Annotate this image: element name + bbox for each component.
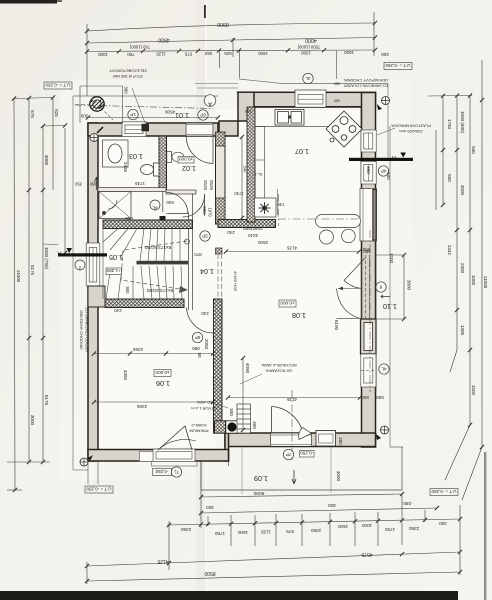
svg-text:1745: 1745 (134, 181, 145, 186)
lower winders (132, 266, 134, 299)
svg-text:ZO ZAMKOVEJ DLAZBY: ZO ZAMKOVEJ DLAZBY (343, 84, 388, 89)
window south wall near corner (316, 431, 336, 447)
section cut right with A marker (349, 153, 413, 162)
svg-text:240: 240 (243, 166, 248, 173)
leader lines for annotations (216, 128, 395, 408)
porch paving box around well (75, 86, 123, 123)
upper winders (120, 229, 137, 259)
U.T box below SW corner (85, 486, 113, 493)
svg-text:8x173,5/280: 8x173,5/280 (144, 244, 171, 250)
svg-text:SO-4601: SO-4601 (196, 400, 213, 405)
corner block kitchen NW (238, 92, 254, 121)
4125/4575 chain (87, 552, 460, 566)
svg-text:380: 380 (124, 86, 129, 94)
door corridor to 1.06 (187, 308, 214, 334)
bottom dimension chains (87, 461, 460, 584)
corner hob (diamond) (326, 111, 362, 147)
svg-text:4L: 4L (381, 366, 387, 371)
svg-text:1.02: 1.02 (182, 164, 196, 173)
svg-text:2050: 2050 (204, 339, 209, 350)
svg-text:1.04: 1.04 (200, 267, 214, 276)
8500 overall (87, 572, 460, 581)
svg-text:1P: 1P (130, 112, 136, 117)
hatched segment top of x215 wall (216, 132, 226, 146)
svg-text:740: 740 (277, 202, 285, 207)
left dimension chains (7, 98, 65, 491)
svg-text:380: 380 (362, 247, 370, 252)
svg-text:5175: 5175 (30, 265, 35, 276)
svg-text:7P: 7P (286, 452, 292, 457)
large fixed window east wall C (360, 189, 377, 242)
extension lines SW corner down (88, 462, 98, 484)
scan black strip top-left (0, 0, 57, 4)
svg-text:800: 800 (202, 206, 207, 214)
svg-text:1200: 1200 (389, 253, 394, 264)
svg-text:1750: 1750 (384, 527, 395, 532)
svg-text:300: 300 (252, 421, 257, 429)
svg-text:1970: 1970 (208, 207, 213, 217)
svg-text:1750: 1750 (447, 119, 452, 130)
svg-text:ZO ZAMKOVEJ DLAZBY: ZO ZAMKOVEJ DLAZBY (85, 308, 90, 353)
wall axis dashes across corridor opening (218, 254, 222, 299)
svg-text:300: 300 (328, 502, 336, 508)
walkway north edge (kitchen side) (239, 79, 388, 84)
svg-text:11000: 11000 (16, 270, 21, 283)
canopy dash-dot line over entrance (75, 105, 213, 109)
svg-text:575: 575 (30, 110, 35, 118)
section cut left with A marker (43, 244, 107, 257)
top dim texts (upside down) (129, 21, 320, 50)
svg-text:1500: 1500 (337, 524, 348, 529)
svg-text:2: 2 (78, 266, 81, 271)
svg-text:2500: 2500 (257, 240, 268, 245)
svg-text:±0,000: ±0,000 (179, 157, 193, 162)
svg-text:±0,000: ±0,000 (280, 300, 294, 305)
svg-text:4L: 4L (305, 76, 311, 81)
north wall kitchen (238, 92, 376, 107)
scan gray line right edge (484, 452, 486, 600)
building floor fill (98, 107, 362, 136)
svg-text:6P: 6P (200, 112, 206, 117)
svg-text:2365: 2365 (132, 347, 143, 352)
svg-text:500: 500 (471, 146, 476, 154)
fold tick mark top center (204, 5, 206, 18)
svg-text:870: 870 (194, 252, 202, 257)
svg-text:2350: 2350 (310, 528, 321, 533)
wall below 1.02 with door opening (166, 190, 196, 194)
svg-text:980: 980 (192, 346, 200, 351)
extension verticals (201, 461, 460, 575)
svg-text:3800: 3800 (407, 280, 412, 291)
direction arrows (292, 295, 390, 484)
svg-text:240: 240 (114, 308, 122, 313)
extension lines through terrace (242, 447, 331, 494)
svg-text:U.T = -0,250: U.T = -0,250 (86, 486, 112, 491)
svg-text:625: 625 (224, 51, 232, 56)
hatched segment lower of x215 wall (216, 198, 226, 224)
svg-text:300: 300 (206, 504, 214, 510)
svg-text:2520: 2520 (203, 180, 208, 191)
svg-text:U.T = -0,250: U.T = -0,250 (385, 63, 411, 68)
svg-text:500: 500 (386, 172, 391, 180)
svg-text:2300: 2300 (460, 263, 465, 274)
axis through 1.09 door (291, 390, 293, 462)
svg-text:300: 300 (80, 114, 88, 119)
stair walking line dashed with arrow (121, 241, 187, 290)
svg-text:KOBILO: KOBILO (192, 423, 207, 428)
svg-text:5175: 5175 (44, 395, 49, 406)
door to bathroom 1.03 (in hatched wall) (162, 191, 164, 212)
svg-text:A: A (208, 100, 212, 106)
upper flight treads (140, 229, 144, 262)
svg-text:-0,250: -0,250 (300, 451, 313, 456)
svg-text:500: 500 (361, 395, 369, 400)
east wall (362, 93, 376, 448)
right dim texts (rotated) (447, 111, 488, 396)
svg-text:3240: 3240 (247, 233, 258, 238)
svg-text:1.09: 1.09 (254, 474, 268, 483)
walkway east edge lower (390, 126, 403, 447)
svg-text:UD ROZAMKA: UD ROZAMKA (265, 369, 292, 374)
1.06 upper dim (94, 353, 213, 355)
svg-text:380: 380 (333, 99, 340, 104)
hatched band below stairs / top of 1.06 (105, 299, 184, 308)
svg-text:2350: 2350 (408, 526, 419, 531)
entrance door opening (186, 123, 213, 136)
1.08 vertical dim 4090 (242, 358, 244, 430)
svg-text:±0,000: ±0,000 (155, 370, 169, 375)
vertical annotation along west wall (79, 308, 90, 353)
svg-text:380: 380 (366, 166, 371, 174)
svg-text:1000: 1000 (98, 52, 108, 57)
door hall to corridor 1.04 (183, 194, 205, 217)
svg-text:2435: 2435 (123, 162, 128, 173)
top dimension chains (87, 12, 375, 96)
svg-text:STLP Ø 300 MM: STLP Ø 300 MM (113, 74, 143, 79)
window kitchen north (295, 90, 326, 107)
svg-text:+1,380: +1,380 (106, 268, 121, 273)
svg-text:ZELEZOBETONOVY: ZELEZOBETONOVY (109, 69, 147, 74)
U.T level boxes (44, 63, 458, 496)
svg-text:1.03: 1.03 (129, 152, 143, 161)
1.08 dim 4135 (226, 251, 359, 253)
pier east wall between 1.10 door and window D (361, 319, 377, 354)
svg-text:8000: 8000 (253, 490, 264, 496)
terrace door 1.09 (south, leaf and arc) (272, 407, 312, 440)
small equipment boxes (240, 419, 250, 433)
svg-text:875: 875 (286, 529, 294, 534)
svg-text:4575: 4575 (361, 551, 372, 557)
window east wall B (361, 162, 376, 185)
svg-text:1.05: 1.05 (109, 253, 123, 262)
bottom dim texts (upside down) (206, 490, 413, 510)
boiler: black circle in square near south wall (226, 421, 239, 433)
svg-text:300: 300 (439, 521, 447, 526)
terrace 8000 dim line (201, 494, 402, 497)
walkway outline around building (73, 79, 403, 470)
thin wall below 1.03 (98, 188, 166, 192)
dim line 4500+4000 (87, 38, 375, 44)
svg-text:11000: 11000 (483, 276, 488, 289)
west wall (88, 123, 98, 461)
scan black bar bottom (0, 591, 458, 600)
kitchen partition hatched (x247-255) (247, 107, 255, 222)
north wall rooms 1.01-1.03 (88, 123, 218, 136)
svg-text:380: 380 (333, 82, 340, 87)
svg-text:1500: 1500 (344, 50, 354, 55)
dim line 8900 overall top (87, 23, 375, 31)
svg-text:1000: 1000 (471, 275, 476, 286)
door frame lines 1.10 opening (362, 255, 370, 319)
svg-text:2350: 2350 (180, 527, 191, 532)
svg-text:750 (1600): 750 (1600) (129, 45, 150, 50)
svg-text:600: 600 (166, 200, 174, 205)
kitchen counter (255, 108, 361, 127)
1.06 lower dim (94, 401, 213, 403)
toilet 1.03 (141, 163, 160, 176)
svg-text:2365: 2365 (136, 404, 147, 409)
left dim texts (rotated) (16, 109, 59, 425)
svg-text:1.06: 1.06 (156, 379, 170, 388)
interior dim texts (upside down / rotated) (74, 52, 411, 482)
svg-text:600: 600 (381, 52, 389, 57)
dining chairs (319, 230, 333, 244)
main bottom chain (167, 519, 460, 525)
svg-text:1500 (750): 1500 (750) (44, 247, 49, 270)
hatched pier in hall/kitchen wall (216, 248, 223, 254)
svg-text:U.T = -0,250: U.T = -0,250 (431, 489, 457, 494)
north arrow near 1.01 (95, 177, 99, 190)
svg-text:240: 240 (227, 230, 235, 235)
svg-text:1500: 1500 (471, 385, 476, 396)
step wall jog at entrance corner (219, 121, 238, 136)
WC 1.02 washbasin (167, 152, 184, 163)
south step wall (225, 433, 229, 461)
extension line left end (86, 24, 88, 96)
svg-text:8900: 8900 (217, 21, 229, 27)
window/terrace door south low wall (room 1.06) (140, 449, 198, 466)
corridor 1.04 west boundary (double line) (189, 194, 193, 310)
hatched band below kitchen (218, 220, 276, 228)
ventilation fan box below kitchen (255, 189, 278, 217)
svg-text:6P: 6P (195, 335, 201, 340)
thin walkway lines near crease (195, 84, 238, 89)
svg-text:575: 575 (184, 51, 192, 56)
exterior steps at south door (237, 404, 251, 433)
svg-text:U.T = -0,250: U.T = -0,250 (45, 82, 71, 87)
circled markers (75, 73, 389, 477)
south wall high part (225, 433, 376, 447)
washbasin oval (108, 144, 122, 163)
kitchen vertical dim (241, 137, 243, 218)
dining table (316, 215, 361, 228)
svg-text:8500: 8500 (204, 570, 215, 576)
svg-text:380: 380 (89, 182, 97, 187)
svg-text:240: 240 (244, 109, 251, 114)
walkway south-west stub (73, 469, 88, 471)
svg-text:4P: 4P (381, 168, 387, 173)
svg-text:3P: 3P (202, 233, 208, 238)
svg-text:4135: 4135 (286, 397, 297, 402)
hatched pier next to boiler (215, 421, 226, 433)
walkway west edge (72, 96, 74, 470)
svg-text:9x173,5/280: 9x173,5/280 (146, 287, 173, 293)
svg-text:3000: 3000 (44, 155, 49, 166)
svg-text:-280: -280 (403, 500, 413, 506)
kitchen tall cabinet along west kitchen wall (255, 127, 265, 199)
annotation text blocks (upside down) (109, 69, 431, 434)
svg-text:SL-1: SL-1 (254, 172, 262, 176)
svg-text:OBVODNY CHODNIK: OBVODNY CHODNIK (79, 310, 84, 350)
kitchen sink (275, 110, 304, 126)
stair landing edge (dark bar) (137, 261, 189, 265)
svg-text:900: 900 (125, 287, 130, 295)
svg-text:240: 240 (201, 311, 209, 316)
hatched wall between 1.06 and 1.08/1.09 (214, 299, 223, 433)
south wall low part (88, 450, 229, 462)
svg-text:2342: 2342 (447, 245, 452, 256)
svg-text:OTVOR 1,4 m: OTVOR 1,4 m (191, 406, 217, 411)
svg-text:6190: 6190 (334, 320, 339, 331)
porch dim 4500 (88, 117, 218, 119)
svg-text:1.07: 1.07 (295, 147, 309, 156)
scan fold crease (196, 0, 205, 600)
svg-text:380: 380 (338, 437, 343, 445)
svg-text:1500: 1500 (258, 51, 268, 56)
stair corner post SW (88, 286, 105, 307)
svg-text:90: 90 (197, 352, 202, 358)
svg-text:4+400+100: 4+400+100 (233, 271, 238, 292)
porch edge north (73, 95, 218, 97)
stair side lines (102, 229, 104, 300)
survey point markers (circle with quadrants) (80, 97, 390, 467)
svg-text:4090: 4090 (245, 363, 250, 374)
svg-text:500: 500 (376, 395, 384, 400)
bathroom 1.03 washbasin counter (103, 140, 129, 167)
svg-text:2525: 2525 (209, 180, 214, 191)
svg-text:350: 350 (74, 182, 82, 187)
svg-text:750: 750 (127, 52, 135, 57)
svg-text:4125: 4125 (157, 558, 168, 564)
door to WC 1.02 (167, 193, 189, 214)
dim chain detail top (87, 50, 375, 52)
svg-text:900: 900 (125, 216, 133, 221)
svg-text:8: 8 (379, 284, 382, 289)
small black door threshold square (160, 216, 166, 221)
svg-text:1.10: 1.10 (383, 302, 397, 311)
svg-text:4500: 4500 (158, 36, 170, 42)
svg-text:1740: 1740 (234, 191, 244, 196)
window east wall A (361, 130, 376, 152)
300/-280 line (201, 508, 437, 513)
svg-text:200x200 mm: 200x200 mm (399, 129, 423, 134)
svg-text:1300: 1300 (460, 325, 465, 336)
hatched band above stairs (103, 220, 193, 229)
svg-text:1500 (600): 1500 (600) (460, 111, 465, 134)
right dimension chains (428, 60, 482, 500)
kitchen/dining boundary dash (278, 218, 361, 220)
hatched partition between 1.03 and 1.02 (159, 136, 167, 191)
svg-text:1500: 1500 (237, 530, 248, 535)
entrance door arc (into hall) (186, 136, 213, 164)
extension line right end (373, 12, 375, 56)
level boxes (106, 157, 314, 458)
svg-text:1.01: 1.01 (175, 111, 189, 120)
svg-text:3000: 3000 (336, 471, 341, 482)
svg-text:3000: 3000 (460, 185, 465, 196)
door marker 3P (200, 231, 210, 241)
svg-text:4350: 4350 (123, 370, 128, 381)
svg-text:4135: 4135 (286, 246, 297, 251)
wall between hall and kitchen (x215) (216, 136, 226, 224)
svg-text:1125: 1125 (156, 52, 166, 57)
svg-text:1300: 1300 (301, 51, 311, 56)
lower flight treads (141, 266, 144, 299)
svg-text:300: 300 (229, 408, 234, 416)
svg-text:PLASTOVA MRIEZKA: PLASTOVA MRIEZKA (391, 124, 431, 129)
svg-text:650: 650 (204, 51, 212, 56)
walkway east edge (387, 84, 389, 159)
door opening south 1.09 (271, 433, 312, 447)
svg-text:-0,250: -0,250 (155, 469, 168, 474)
svg-text:4500: 4500 (164, 110, 175, 115)
extension mid tick line (232, 38, 234, 57)
svg-text:3000: 3000 (30, 415, 35, 426)
svg-text:500: 500 (447, 174, 452, 182)
svg-text:2580: 2580 (242, 226, 253, 231)
svg-text:NECHAJELA JAMA: NECHAJELA JAMA (261, 363, 296, 368)
1.10 dim 3800 vertical (376, 230, 404, 392)
svg-text:1750: 1750 (214, 531, 225, 536)
svg-text:7500 (1600): 7500 (1600) (297, 45, 320, 50)
garden door 1.06 (south low wall) (158, 426, 196, 450)
well/shaft circle top-left (90, 97, 113, 121)
french doors to terrace 1.10 (east) (337, 258, 366, 318)
1.09 dim 4135 (228, 397, 360, 399)
svg-text:4L: 4L (152, 206, 158, 211)
svg-text:625: 625 (54, 109, 59, 117)
svg-text:7L: 7L (174, 469, 180, 474)
axis through 1.10 opening (369, 230, 371, 392)
shower 1.03 (99, 192, 131, 219)
svg-text:4000: 4000 (305, 37, 317, 43)
svg-text:ODKVAPOVY CHODNIK: ODKVAPOVY CHODNIK (344, 78, 389, 83)
svg-text:1125: 1125 (261, 530, 271, 535)
window east wall D (361, 354, 376, 387)
svg-text:PREMIUM: PREMIUM (190, 429, 209, 434)
window west wall (stair landing) (86, 243, 100, 286)
reinforced concrete column in porch (142, 124, 150, 132)
window north wall 1.03 (122, 122, 146, 137)
svg-text:1.08: 1.08 (292, 311, 306, 320)
svg-text:1000: 1000 (361, 523, 372, 528)
